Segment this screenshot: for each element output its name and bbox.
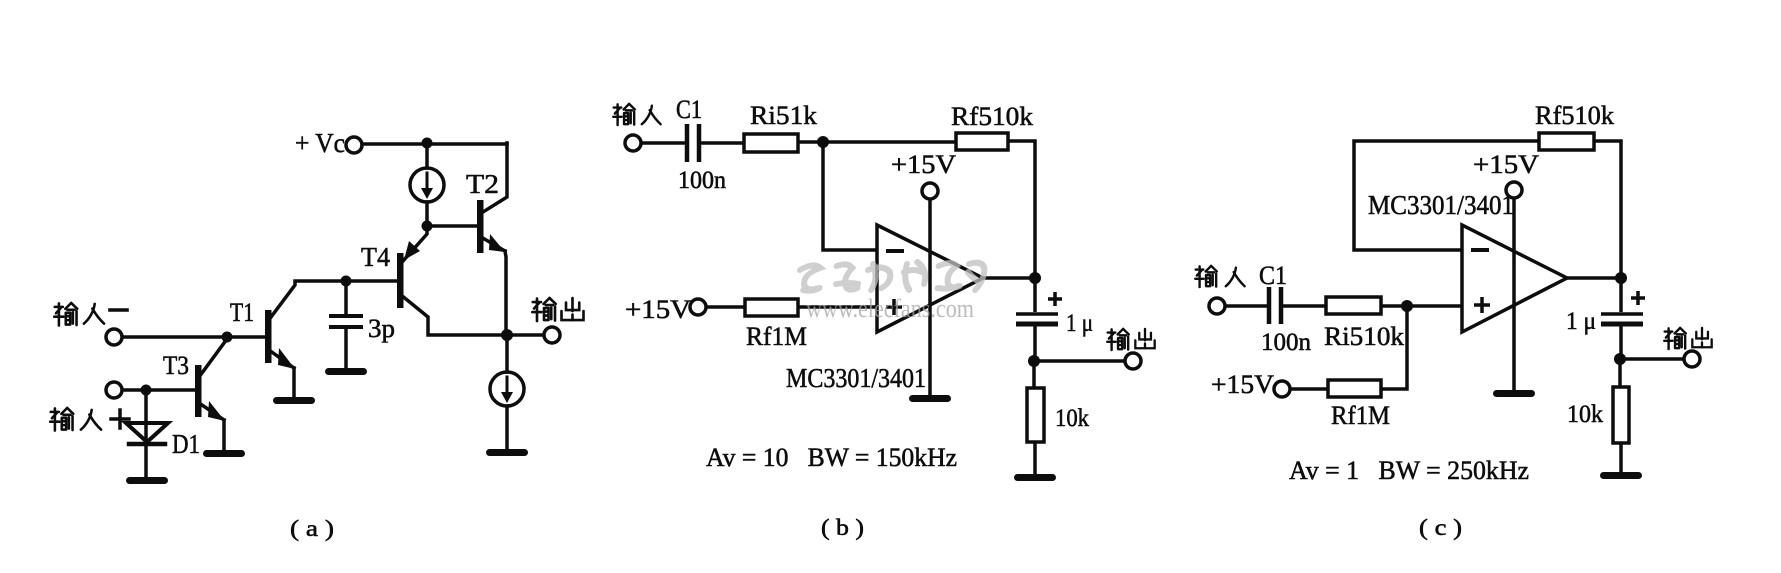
wire Rf1M to op-amp non-inverting input bbox=[798, 305, 877, 309]
svg-text:www.elecfans.com: www.elecfans.com bbox=[806, 294, 974, 323]
wire output node to current source I2 bbox=[505, 335, 509, 372]
resistor Rf510k (c) bbox=[1535, 101, 1614, 150]
label 输入- bbox=[54, 303, 127, 326]
ground under D1 bbox=[126, 477, 168, 484]
diode D1 bbox=[126, 390, 200, 477]
terminal +Vc bbox=[346, 137, 362, 153]
wire to output terminal (c) bbox=[1620, 357, 1684, 361]
ground under T3 bbox=[203, 450, 245, 457]
wire C1 to Ri51k bbox=[701, 141, 744, 145]
svg-text:Rf1M: Rf1M bbox=[746, 322, 807, 351]
svg-text:Ri51k: Ri51k bbox=[750, 101, 817, 130]
wire T2 emitter to output node bbox=[505, 251, 506, 335]
wire T1 collector to T4 base bbox=[268, 281, 346, 321]
transistor T2 bbox=[466, 169, 505, 253]
node input+ junction bbox=[141, 385, 152, 396]
svg-text:C1: C1 bbox=[1259, 261, 1287, 290]
transistor T3 bbox=[163, 351, 225, 421]
wire input to C1 (c) bbox=[1225, 304, 1267, 308]
svg-text:+15V: +15V bbox=[891, 150, 956, 179]
node output (b) bbox=[1029, 272, 1041, 284]
ground under I2 bbox=[486, 449, 528, 456]
svg-text:MC3301/3401: MC3301/3401 bbox=[1368, 190, 1514, 220]
terminal +15V lower (c) bbox=[1274, 381, 1290, 397]
svg-text:Rf510k: Rf510k bbox=[951, 102, 1033, 131]
wire T3 emitter to ground bbox=[222, 420, 226, 449]
wire +15V to Rf1M (c) bbox=[1290, 387, 1328, 391]
wire Rf510k to output node (c) bbox=[1594, 141, 1621, 278]
label 输出 (b) bbox=[1107, 329, 1154, 350]
svg-text:T3: T3 bbox=[163, 351, 189, 380]
svg-text:( b ): ( b ) bbox=[821, 515, 864, 540]
wire Vcc to current source I1 bbox=[425, 143, 429, 168]
ground under T1 bbox=[273, 397, 315, 404]
wire +15V to Rf1M bbox=[706, 305, 745, 309]
op-amp U1 (c) bbox=[1462, 225, 1567, 332]
wire T1 emitter to ground bbox=[292, 368, 296, 396]
resistor Rf1M (b) bbox=[745, 299, 807, 351]
resistor 10k (c) bbox=[1567, 359, 1629, 472]
transistor T1 bbox=[230, 298, 295, 369]
svg-text:Rf510k: Rf510k bbox=[1535, 101, 1614, 130]
label 输入 (c) bbox=[1195, 266, 1244, 287]
ground under 3p bbox=[325, 368, 367, 375]
terminal output (c) bbox=[1684, 351, 1700, 367]
capacitor 1u (c) bbox=[1566, 278, 1645, 359]
resistor Ri51k bbox=[744, 101, 817, 152]
wire T3 base bbox=[122, 388, 195, 392]
resistor Rf1M (c) bbox=[1328, 380, 1390, 430]
svg-text:( c ): ( c ) bbox=[1419, 515, 1462, 540]
node Vcc junction bbox=[422, 138, 433, 149]
wire input to C1 bbox=[641, 141, 685, 145]
node below cap (b) bbox=[1028, 355, 1040, 367]
terminal input (b) bbox=[625, 135, 641, 151]
wire T4 collector to output rail bbox=[401, 295, 507, 335]
svg-text:10k: 10k bbox=[1567, 401, 1603, 428]
node inverting junction (b) bbox=[817, 136, 829, 148]
wire T4 base bbox=[346, 279, 397, 283]
label 输入+ bbox=[50, 408, 129, 431]
svg-text:+ Vc: + Vc bbox=[295, 128, 345, 158]
label 输出 (c) bbox=[1664, 328, 1711, 349]
capacitor C 3p bbox=[331, 281, 395, 368]
ground op-amp (c) bbox=[1493, 390, 1535, 397]
terminal +15V top (c) bbox=[1506, 182, 1522, 198]
node T4 base junction bbox=[341, 276, 352, 287]
wire C1 to Ri510k bbox=[1283, 304, 1326, 308]
node output (c) bbox=[1615, 272, 1627, 284]
terminal output bbox=[544, 327, 560, 343]
terminal input (c) bbox=[1209, 298, 1225, 314]
wire junction to op-amp inverting input bbox=[823, 142, 877, 250]
svg-text:+15V: +15V bbox=[625, 295, 691, 324]
resistor 10k (b) bbox=[1027, 361, 1089, 474]
wire op-amp output (c) bbox=[1567, 276, 1621, 280]
terminal input+ bbox=[106, 382, 122, 398]
capacitor C1 (c) bbox=[1259, 261, 1312, 356]
svg-text:T1: T1 bbox=[230, 298, 254, 327]
wire T3 collector bbox=[199, 339, 227, 377]
wire Ri510k to op-amp + input bbox=[1381, 304, 1462, 308]
svg-text:( a ): ( a ) bbox=[290, 516, 334, 541]
node below cap (c) bbox=[1614, 353, 1626, 365]
watermark elecfans bbox=[797, 262, 985, 323]
resistor Ri510k (c) bbox=[1324, 297, 1404, 351]
capacitor 1u (b) bbox=[1016, 278, 1093, 361]
wire Ri51k to Rf510k bbox=[798, 140, 956, 144]
svg-text:D1: D1 bbox=[172, 429, 200, 459]
svg-text:MC3301/3401: MC3301/3401 bbox=[786, 363, 926, 393]
wire +15V through op-amp to ground (c) bbox=[1512, 198, 1516, 390]
svg-text:100n: 100n bbox=[678, 167, 726, 194]
wire Vcc rail bbox=[362, 142, 507, 146]
svg-text:3p: 3p bbox=[368, 314, 395, 343]
wire feedback loop (c) bbox=[1354, 141, 1539, 250]
svg-text:T4: T4 bbox=[361, 242, 390, 272]
terminal input- bbox=[106, 329, 122, 345]
terminal +15V left (b) bbox=[690, 299, 706, 315]
ground under 10k (c) bbox=[1600, 472, 1642, 479]
wire op-amp output (b) bbox=[983, 276, 1035, 280]
svg-text:T2: T2 bbox=[466, 169, 499, 199]
svg-text:+15V: +15V bbox=[1473, 150, 1539, 179]
current source I2 bbox=[490, 372, 524, 406]
ground under 10k (b) bbox=[1014, 474, 1056, 481]
wire to output terminal (b) bbox=[1034, 359, 1125, 363]
node + input junction (c) bbox=[1401, 300, 1413, 312]
node input- junction bbox=[222, 332, 233, 343]
transistor T4 bbox=[361, 241, 420, 308]
wire I2 to ground bbox=[505, 406, 509, 449]
svg-text:+15V: +15V bbox=[1211, 370, 1274, 399]
terminal output (b) bbox=[1125, 353, 1141, 369]
wire Rf510k to output node (b) bbox=[1008, 141, 1035, 278]
current source I1 bbox=[410, 168, 444, 202]
wire node B to T2 base bbox=[427, 224, 477, 228]
ground op-amp (b) bbox=[909, 395, 951, 402]
wire node B to T4 emitter bbox=[403, 226, 427, 261]
svg-text:100n: 100n bbox=[1261, 329, 1312, 356]
wire Rf1M to + node (c) bbox=[1381, 306, 1407, 389]
wire Vcc right branch to T2 collector bbox=[483, 143, 507, 212]
wire +15V through op-amp to ground bbox=[928, 199, 932, 395]
svg-text:Av = 1 BW = 250kHz: Av = 1 BW = 250kHz bbox=[1289, 456, 1529, 485]
node output junction bbox=[501, 329, 513, 341]
terminal +15V top (b) bbox=[922, 183, 938, 199]
svg-text:Rf1M: Rf1M bbox=[1331, 401, 1390, 430]
capacitor C1 (b) bbox=[676, 95, 726, 194]
svg-text:Av = 10 BW = 150kHz: Av = 10 BW = 150kHz bbox=[706, 443, 957, 472]
op-amp U1 (b) bbox=[877, 225, 983, 332]
resistor Rf510k (b) bbox=[951, 102, 1033, 150]
wire T1 base bbox=[122, 335, 265, 339]
wire I1 to node B bbox=[425, 202, 429, 226]
svg-text:1 μ: 1 μ bbox=[1566, 308, 1596, 335]
svg-text:10k: 10k bbox=[1055, 405, 1089, 432]
svg-text:1 μ: 1 μ bbox=[1066, 310, 1093, 337]
label 输出 (a) bbox=[532, 298, 583, 321]
node B junction bbox=[422, 221, 433, 232]
svg-text:Ri510k: Ri510k bbox=[1324, 322, 1404, 351]
label 输入 (b) bbox=[613, 104, 660, 125]
wire output rail bbox=[507, 333, 544, 337]
svg-text:C1: C1 bbox=[676, 95, 702, 124]
